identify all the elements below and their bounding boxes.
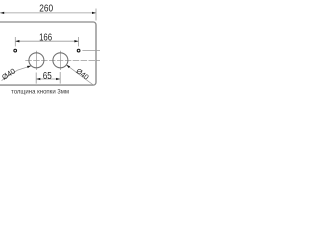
arrow 65 left: [36, 78, 40, 80]
label Ø40 left: [0, 66, 17, 81]
small hole left: [14, 49, 17, 52]
svg-text:толщина кнопки 3мм: толщина кнопки 3мм: [11, 90, 69, 96]
dim 166 extension left: [14, 37, 16, 46]
leader line Ø40 left: [2, 66, 32, 81]
small hole right: [77, 49, 80, 52]
arrow 260 left: [0, 12, 4, 14]
label Ø40 right: [74, 66, 90, 81]
arrow 65 right: [56, 78, 60, 80]
dim 65 extension right: [59, 72, 61, 84]
extension line 260 right: [95, 9, 97, 21]
svg-text:Ø40: Ø40: [74, 66, 90, 81]
panel outline: [0, 22, 96, 85]
button right center mark: [59, 51, 61, 70]
arrow 166 right: [74, 40, 78, 42]
button left center mark: [35, 51, 37, 70]
svg-text:65: 65: [43, 71, 52, 82]
buttons centerline: [25, 60, 100, 62]
leader arrow Ø40 right: [66, 65, 70, 68]
hole axis line right: [82, 49, 100, 51]
arrow 166 left: [15, 40, 19, 42]
dim 166 extension right: [78, 37, 80, 46]
svg-text:Ø40: Ø40: [0, 66, 17, 81]
button circle left: [29, 53, 44, 68]
leader arrow Ø40 left: [27, 66, 31, 68]
svg-text:166: 166: [39, 32, 52, 43]
arrow 260 right: [92, 12, 96, 14]
button circle right: [53, 53, 68, 68]
leader line Ø40 right: [66, 65, 94, 86]
dim line 65: [36, 78, 60, 80]
dim line 166: [15, 40, 78, 42]
dim line 260: [0, 12, 96, 14]
dim 65 extension left: [35, 73, 37, 84]
